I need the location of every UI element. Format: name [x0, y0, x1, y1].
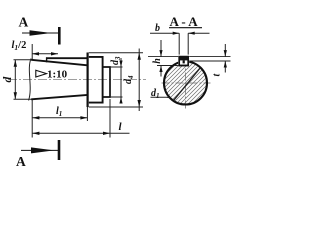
svg-text:A - A: A - A	[170, 14, 199, 29]
key top dark cap	[179, 56, 189, 60]
break line (left end of cone)	[29, 59, 31, 101]
cutting plane dash bottom	[58, 140, 61, 160]
key outline	[179, 57, 188, 66]
washer extension down (l1 ext)	[86, 107, 88, 121]
key on cone: top line	[46, 57, 88, 59]
small cylinder (thread end)	[103, 67, 110, 97]
thin level line: shaft surface (right of key)	[188, 60, 230, 62]
cone top generatrix	[31, 60, 87, 66]
centerline main view	[8, 79, 146, 81]
collar	[89, 57, 103, 103]
svg-text:d: d	[2, 77, 14, 83]
svg-text:l1/2: l1/2	[12, 40, 27, 52]
chord extension left	[157, 65, 179, 67]
svg-text:b: b	[155, 23, 160, 34]
thin level line: key top	[148, 56, 231, 58]
svg-text:h: h	[152, 58, 163, 64]
svg-text:1:10: 1:10	[47, 69, 68, 81]
keyway slot white mask	[178, 55, 189, 65]
section arrow bottom	[21, 149, 58, 151]
taper symbol	[36, 70, 47, 77]
cone bottom generatrix	[31, 95, 87, 99]
cone end / washer	[86, 53, 88, 108]
section circle centerlines	[162, 82, 211, 84]
cutting plane dash top	[58, 27, 61, 45]
section circle	[164, 62, 207, 105]
keyway chord	[179, 65, 189, 67]
key front edge	[46, 57, 48, 62]
section arrow top	[22, 32, 58, 34]
key inner mark	[183, 60, 185, 63]
svg-text:A: A	[16, 154, 26, 169]
hatching	[92, 30, 294, 140]
svg-text:A: A	[19, 15, 29, 30]
